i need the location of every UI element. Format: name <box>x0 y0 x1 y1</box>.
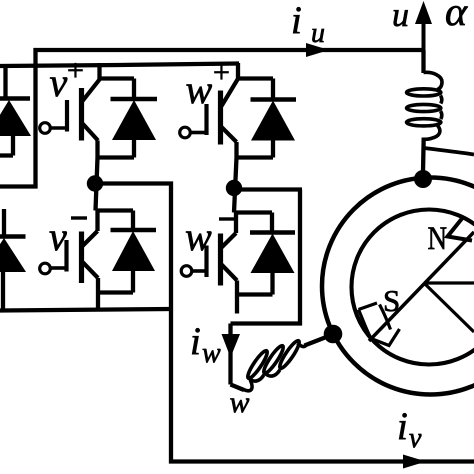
rotor angle line diagonal <box>424 283 474 332</box>
svg-text:w: w <box>230 386 250 419</box>
diode D5 (w+ antiparallel) <box>236 79 296 158</box>
arrow i_u on top bus <box>306 43 329 57</box>
rotor S pole cap <box>359 303 400 346</box>
diode D2 (u- leg, cut at left edge) <box>0 209 26 311</box>
svg-text:α: α <box>445 0 469 34</box>
wire DC+ rail <box>0 64 239 67</box>
diode D4 (v- antiparallel) <box>98 211 156 293</box>
wire u line to coil <box>421 50 425 73</box>
svg-text:N: N <box>428 219 448 256</box>
motor stator outer circle <box>322 178 474 395</box>
transistor Q1 (IGBT v+) <box>40 63 100 158</box>
svg-text:S: S <box>383 283 400 318</box>
wire w output routing <box>231 190 303 385</box>
arrow i_w <box>222 334 241 358</box>
svg-text:+: + <box>213 56 230 89</box>
motor stator inner circle <box>352 210 474 365</box>
svg-text:i: i <box>190 320 201 363</box>
svg-text:u: u <box>311 18 325 49</box>
svg-text:v: v <box>49 214 67 259</box>
diode D6 (w- antiparallel) <box>237 213 295 295</box>
inductor L_w <box>244 339 306 391</box>
rotor N pole cap <box>448 219 473 241</box>
diode D3 (v+ antiparallel) <box>97 79 157 158</box>
wire branch to right edge <box>424 148 474 155</box>
rotor axis line <box>369 232 474 341</box>
wire v midpoint <box>96 158 98 211</box>
node w terminal dot <box>324 325 343 344</box>
svg-text:+: + <box>67 54 84 87</box>
wire coil to motor terminal u <box>421 138 426 173</box>
svg-text:w: w <box>186 67 213 112</box>
wire u midpoint to top bus <box>0 50 423 187</box>
node u terminal dot <box>414 170 432 188</box>
node u axis arrow <box>422 23 426 50</box>
wire w midpoint <box>234 158 237 213</box>
wire DC- rail <box>0 309 171 311</box>
svg-text:u: u <box>392 0 409 34</box>
inductor L_u <box>407 72 443 139</box>
svg-text:i: i <box>397 405 408 448</box>
transistor Q3 (IGBT w+) <box>180 63 238 158</box>
svg-text:v: v <box>50 60 68 105</box>
svg-text:w: w <box>185 214 212 259</box>
svg-text:v: v <box>409 423 422 454</box>
transistor Q4 (IGBT w-) <box>181 213 272 314</box>
node v dot <box>87 175 103 191</box>
svg-text:i: i <box>291 0 302 42</box>
node w dot <box>226 180 242 196</box>
wire jog to coil <box>231 385 245 391</box>
wire v output to bottom bus <box>95 184 474 462</box>
svg-text:w: w <box>202 338 221 369</box>
diode D1 (u+ leg, cut at left edge) <box>0 64 31 156</box>
rotor angle line horizontal <box>424 281 474 284</box>
transistor Q2 (IGBT v-) <box>40 211 133 311</box>
wire coil to motor terminal w <box>305 338 326 346</box>
arrow i_v on bottom bus <box>403 455 426 469</box>
